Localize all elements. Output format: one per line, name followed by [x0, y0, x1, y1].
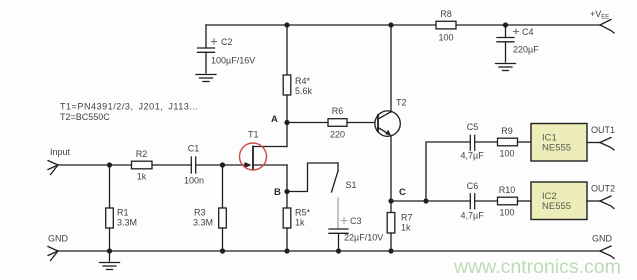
resistor R7 — [387, 201, 412, 251]
svg-text:100µF/16V: 100µF/16V — [211, 56, 255, 66]
svg-text:T1=PN4391/2/3, J201, J113...: T1=PN4391/2/3, J201, J113... — [60, 102, 199, 112]
svg-text:A: A — [271, 114, 278, 125]
annotation transistor types — [60, 102, 199, 123]
input connector — [48, 147, 71, 175]
svg-text:OUT2: OUT2 — [591, 184, 615, 194]
svg-text:C: C — [399, 187, 406, 198]
svg-text:R6: R6 — [332, 106, 344, 116]
svg-text:4,7µF: 4,7µF — [461, 211, 485, 221]
ground under C2 — [196, 75, 216, 82]
op-amp timer IC1 NE555 — [531, 124, 587, 162]
capacitor C1 — [184, 144, 204, 186]
svg-text:C2: C2 — [221, 37, 233, 47]
svg-text:100: 100 — [499, 149, 514, 159]
svg-text:C1: C1 — [188, 144, 200, 154]
svg-text:R5*: R5* — [295, 208, 311, 218]
wire C6 to R10 — [475, 200, 498, 202]
svg-text:5.6k: 5.6k — [295, 86, 313, 96]
junction C1 / R3 — [220, 162, 225, 167]
GND right connector — [592, 234, 614, 259]
svg-text:T1: T1 — [248, 130, 259, 140]
wire node A to R6 — [287, 122, 328, 124]
resistor R4 — [283, 25, 312, 122]
wire top rail right — [456, 24, 600, 26]
node C — [388, 187, 406, 204]
red highlight circle around T1 — [240, 143, 267, 170]
junction rail / R1 — [107, 248, 112, 253]
svg-text:NE555: NE555 — [542, 201, 571, 212]
wire C5 to R9 — [475, 141, 498, 143]
svg-text:C3: C3 — [350, 216, 362, 226]
wire T2 emitter to node C — [390, 136, 392, 202]
svg-text:R1: R1 — [117, 208, 129, 218]
junction top rail / C4 — [503, 22, 508, 27]
svg-text:R7: R7 — [401, 213, 413, 223]
wire R6 to T2 base — [347, 122, 378, 124]
svg-text:R4*: R4* — [295, 76, 311, 86]
resistor R9 — [498, 126, 518, 159]
svg-text:R8: R8 — [440, 9, 452, 19]
junction C branch — [423, 198, 428, 203]
svg-text:C6: C6 — [467, 181, 479, 191]
switch S1 — [332, 163, 357, 229]
wire bottom ground rail — [58, 250, 600, 252]
svg-text:R3: R3 — [194, 208, 206, 218]
wire IC1 to OUT1 — [587, 142, 600, 144]
svg-text:T2=BC550C: T2=BC550C — [60, 112, 110, 122]
svg-text:GND: GND — [592, 234, 613, 244]
svg-text:100n: 100n — [184, 176, 204, 186]
wire input to R2 — [58, 164, 132, 166]
svg-text:100: 100 — [438, 33, 453, 43]
power +VEE — [590, 9, 614, 33]
wire top rail left — [206, 24, 436, 26]
svg-text:R10: R10 — [499, 185, 516, 195]
junction rail / R7 — [388, 248, 393, 253]
svg-text:OUT1: OUT1 — [591, 125, 615, 135]
capacitor C4 — [497, 25, 539, 62]
resistor R2 — [132, 149, 153, 182]
svg-text:4,7µF: 4,7µF — [461, 151, 485, 161]
node A — [271, 114, 290, 125]
junction top rail / T2 collector — [388, 22, 393, 27]
connector OUT1 — [591, 125, 615, 150]
svg-text:T2: T2 — [396, 98, 407, 108]
wire C1 to T1 gate — [196, 164, 223, 166]
wire R2 to C1 — [152, 164, 191, 166]
transistor T2 — [375, 98, 407, 137]
capacitor C5 — [461, 122, 485, 161]
resistor R3 — [193, 165, 226, 251]
svg-text:100: 100 — [499, 208, 514, 218]
svg-text:GND: GND — [48, 234, 69, 244]
resistor R8 — [436, 9, 456, 43]
ground under C4 — [496, 64, 516, 71]
node B — [274, 187, 290, 198]
junction top rail / R4 — [284, 22, 289, 27]
svg-text:R2: R2 — [136, 149, 148, 159]
resistor R6 — [328, 106, 347, 140]
svg-text:1k: 1k — [401, 223, 411, 233]
GND left connector — [48, 234, 69, 261]
capacitor C2 — [198, 25, 256, 73]
junction rail / R5 — [284, 248, 289, 253]
svg-text:Input: Input — [50, 147, 71, 157]
resistor R1 — [106, 165, 137, 251]
svg-text:1k: 1k — [295, 218, 305, 228]
svg-text:R9: R9 — [501, 126, 513, 136]
resistor R5 — [283, 192, 310, 252]
wire node C to C6 — [426, 200, 470, 202]
svg-text:220µF: 220µF — [513, 45, 539, 55]
svg-text:1k: 1k — [137, 172, 147, 182]
svg-text:NE555: NE555 — [542, 143, 571, 154]
junction input / R1 — [107, 162, 112, 167]
svg-text:3.3M: 3.3M — [117, 218, 137, 228]
connector OUT2 — [591, 184, 615, 209]
wire node C to C5 branch — [391, 142, 470, 201]
wire R10 to IC2 — [518, 200, 532, 202]
svg-text:www.cntronics.com: www.cntronics.com — [453, 256, 621, 278]
wire T2 collector — [390, 25, 392, 112]
svg-text:3.3M: 3.3M — [193, 218, 213, 228]
transistor T1 (JFET) — [223, 123, 288, 192]
svg-text:C4: C4 — [522, 27, 534, 37]
junction rail / R3 — [220, 248, 225, 253]
wire R9 to IC1 — [518, 141, 532, 143]
svg-text:22µF/10V: 22µF/10V — [344, 233, 383, 243]
ground symbol on rail — [100, 251, 120, 270]
capacitor C6 — [461, 181, 485, 221]
svg-text:C5: C5 — [467, 122, 479, 132]
svg-text:B: B — [274, 187, 281, 198]
junction rail / C3 — [336, 248, 341, 253]
wire IC2 to OUT2 — [587, 200, 600, 202]
op-amp timer IC2 NE555 — [531, 182, 587, 220]
svg-text:220: 220 — [330, 130, 345, 140]
wire node B to switch S1 — [287, 163, 338, 192]
resistor R10 — [498, 185, 518, 218]
svg-text:S1: S1 — [346, 180, 357, 190]
capacitor C3 — [329, 216, 383, 251]
